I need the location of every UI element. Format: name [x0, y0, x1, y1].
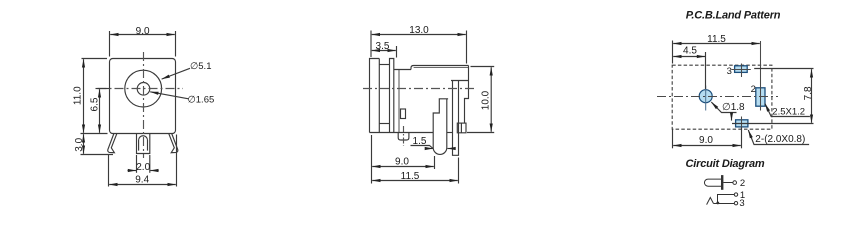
dimension 1.5 side view: [411, 146, 454, 149]
side view pin3 side tab: [457, 123, 466, 133]
spring contact zigzag: [707, 198, 714, 205]
svg-text:1.5: 1.5: [413, 136, 427, 147]
side view middle pin contact: [433, 99, 448, 155]
side view pin3 strip becoming right pin: [453, 81, 459, 156]
side view right edge with step: [465, 66, 469, 123]
pad 3: [732, 64, 751, 78]
front view horizontal centerline: [98, 88, 184, 90]
side view horizontal centerline: [363, 88, 477, 90]
svg-text:2.0: 2.0: [136, 162, 150, 173]
svg-text:Circuit Diagram: Circuit Diagram: [686, 158, 765, 170]
land pattern horizontal centerline: [657, 96, 778, 98]
svg-text:2: 2: [740, 178, 745, 189]
dimension 9.0 land pattern: [673, 128, 742, 149]
svg-text:11.5: 11.5: [707, 34, 726, 45]
dimension 7.8 land pattern: [732, 69, 814, 124]
front view big circle: [125, 70, 162, 107]
svg-text:4.5: 4.5: [683, 46, 697, 57]
side view front section top: [394, 69, 411, 71]
wire to pin 3: [714, 203, 735, 205]
land pattern dashed outline: [672, 65, 772, 129]
dimension 3.0 front view: [81, 134, 114, 155]
dimension 6.5 front view: [96, 89, 110, 133]
svg-text:∅1.65: ∅1.65: [188, 95, 215, 106]
side view flange plate 2: [390, 59, 394, 133]
svg-text:∅5.1: ∅5.1: [190, 61, 211, 72]
dimension 10.0 side view: [467, 67, 494, 133]
dimension 9.0 side view: [372, 135, 435, 169]
svg-text:9.4: 9.4: [135, 175, 149, 186]
side view pin3 contact entry: [451, 80, 469, 82]
side view recess between plates: [379, 64, 389, 66]
svg-text:10.0: 10.0: [480, 90, 491, 110]
label 2-(2.0X0.8) with leader: [748, 130, 809, 145]
svg-text:2-(2.0X0.8): 2-(2.0X0.8): [755, 134, 805, 145]
svg-text:2.5X1.2: 2.5X1.2: [772, 107, 805, 118]
svg-text:2: 2: [751, 84, 756, 95]
svg-text:3.0: 3.0: [74, 137, 85, 151]
junction dot: [716, 202, 719, 205]
svg-text:13.0: 13.0: [409, 25, 429, 36]
svg-text:9.0: 9.0: [699, 135, 713, 146]
label dia 5.1 with leader: [162, 68, 190, 79]
side view window: [401, 109, 406, 119]
svg-text:6.5: 6.5: [90, 97, 101, 111]
pin 3 terminal circle: [734, 202, 737, 205]
dimension 11.5 land pattern: [673, 41, 760, 64]
side view left stub pin: [398, 133, 409, 141]
label dia 1.8 with leader: [711, 102, 736, 121]
svg-text:9.0: 9.0: [395, 156, 409, 167]
svg-text:3: 3: [727, 66, 732, 77]
side view shell top: [411, 66, 469, 70]
front view vertical centerline: [143, 52, 145, 158]
front view body square: [110, 59, 176, 134]
label dia 1.65 with leader: [150, 92, 188, 99]
dimension 13.0 side view: [371, 31, 467, 64]
side view recess bottom line: [379, 123, 389, 125]
svg-text:∅1.8: ∅1.8: [722, 102, 745, 113]
front view center pin outer: [137, 134, 150, 154]
side view flange plate 1: [370, 59, 380, 133]
svg-text:3: 3: [739, 198, 744, 209]
dimension 11.5 side view: [372, 158, 459, 184]
pin 1 terminal circle: [734, 193, 737, 196]
dimension 9.0 top of front view: [110, 31, 176, 57]
side view bottom edge: [370, 132, 434, 134]
pin 1 and 3 switch symbol: [707, 193, 738, 205]
switch wire to pin 1: [718, 195, 735, 204]
side view stub centerline: [403, 126, 405, 146]
dimension 3.5 side view: [372, 46, 397, 58]
svg-text:9.0: 9.0: [136, 26, 150, 37]
svg-text:3.5: 3.5: [376, 41, 390, 52]
dimension 9.4 front view: [109, 135, 177, 187]
pin 2 terminal circle: [733, 181, 737, 185]
svg-text:7.8: 7.8: [803, 86, 814, 100]
front view left claw: [108, 133, 117, 152]
circle pad: [699, 86, 712, 111]
pin 2 barrel symbol: [704, 175, 736, 190]
svg-text:11.5: 11.5: [401, 171, 420, 182]
bottom pad: [732, 117, 752, 131]
svg-text:P.C.B.Land Pattern: P.C.B.Land Pattern: [686, 10, 781, 22]
svg-text:11.0: 11.0: [72, 86, 83, 105]
front view right claw: [169, 133, 178, 152]
dimension 4.5 land pattern: [673, 52, 705, 89]
front view small circle: [137, 83, 150, 96]
dimension 2.0 front view: [128, 155, 159, 173]
pad 2: [756, 41, 765, 111]
label 2.5X1.2 with leader: [765, 104, 810, 117]
front view center pin inner arch: [139, 136, 148, 151]
dimension 11.0 left of front view: [82, 59, 108, 133]
